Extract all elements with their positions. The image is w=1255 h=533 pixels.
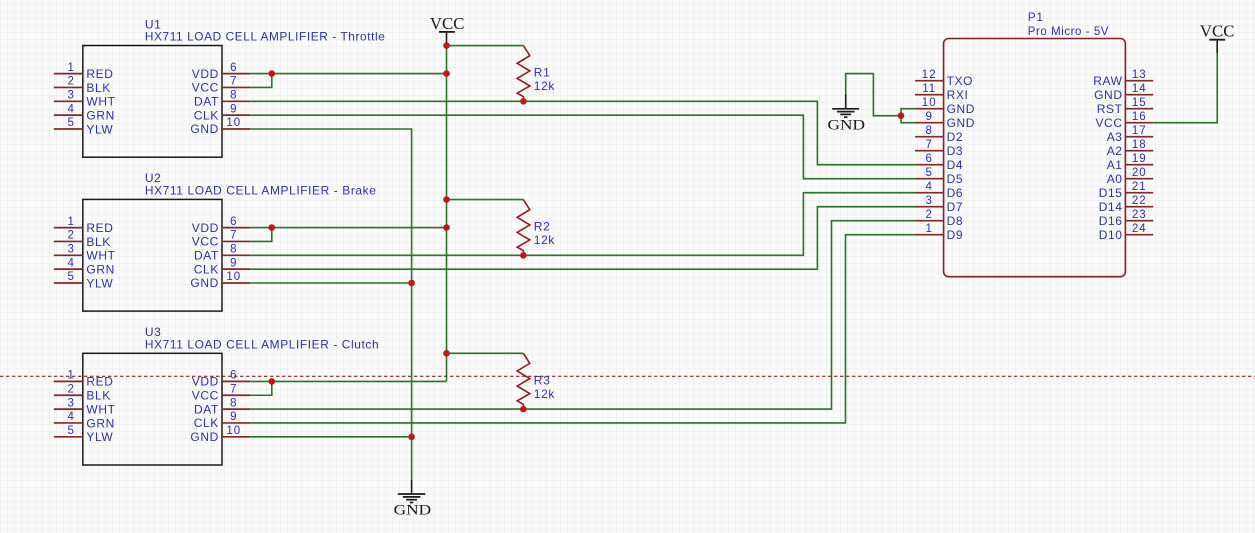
junction R2 bottom on U2 DAT <box>520 252 527 259</box>
svg-text:5: 5 <box>67 271 74 283</box>
junction VCC node <box>443 42 450 49</box>
svg-text:GND: GND <box>190 122 218 136</box>
wire U3 VDD to VCC rail <box>250 380 446 382</box>
U1 pin 2 BLK <box>54 76 111 95</box>
svg-text:VCC: VCC <box>192 81 219 95</box>
svg-text:GRN: GRN <box>86 108 114 122</box>
wire U3 DAT to P1 D8 <box>250 221 915 409</box>
junction P1 GND net <box>898 112 905 119</box>
U1 pin 8 DAT <box>194 90 250 109</box>
U3 pin 8 DAT <box>194 397 250 416</box>
wire U3 CLK to P1 D9 <box>250 235 915 423</box>
svg-text:D14: D14 <box>1099 200 1123 214</box>
wire U2 VCC jog to VDD <box>250 228 272 242</box>
wire VCC rail to R3 <box>447 352 524 354</box>
P1 pin 11 RXI <box>915 83 968 102</box>
svg-text:R2: R2 <box>534 220 551 234</box>
P1 pin 17 A3 <box>1107 125 1153 144</box>
svg-text:D4: D4 <box>947 158 964 172</box>
svg-text:VCC: VCC <box>1095 116 1122 130</box>
wire P1 GND net from ground symbol <box>846 74 901 116</box>
P1 pin 6 D4 <box>915 153 963 172</box>
junction VCC rail at R3 top <box>443 350 450 357</box>
svg-text:D5: D5 <box>947 172 964 186</box>
resistor R2 <box>517 200 530 256</box>
junction U1 VDD-VCC <box>269 70 276 77</box>
wire U2 GND to ground rail <box>250 282 411 284</box>
svg-text:CLK: CLK <box>194 108 219 122</box>
U2 pin 5 YLW <box>54 271 114 290</box>
junction R1 bottom on U1 DAT <box>520 98 527 105</box>
svg-text:2: 2 <box>925 209 932 221</box>
svg-text:RST: RST <box>1097 102 1123 116</box>
U3 pin 3 WHT <box>54 397 116 416</box>
svg-text:10: 10 <box>226 117 241 129</box>
svg-text:TXO: TXO <box>947 74 973 88</box>
svg-text:D10: D10 <box>1099 228 1123 242</box>
U1 pin 7 VCC <box>192 76 250 95</box>
P1 pin 1 D9 <box>915 223 963 242</box>
wire U1 GND to ground rail <box>250 129 411 480</box>
U3 pin 6 VDD <box>192 370 250 389</box>
U2 pin 3 WHT <box>54 244 116 263</box>
junction VCC rail at R2 top <box>443 196 450 203</box>
svg-text:13: 13 <box>1132 69 1147 81</box>
wire U2 VDD to VCC rail <box>250 227 446 229</box>
P1 pin 19 A1 <box>1107 153 1153 172</box>
U2 pin 7 VCC <box>192 230 250 249</box>
junction U2 VDD-VCC <box>269 224 276 231</box>
wire U1 VDD to VCC rail <box>250 73 446 75</box>
svg-text:5: 5 <box>67 425 74 437</box>
svg-text:GND: GND <box>1094 88 1122 102</box>
P1 pin 24 D10 <box>1099 223 1153 242</box>
svg-text:WHT: WHT <box>86 249 115 263</box>
U1 pin 4 GRN <box>54 103 115 122</box>
svg-text:18: 18 <box>1132 139 1147 151</box>
svg-text:6: 6 <box>230 216 237 228</box>
svg-text:VCC: VCC <box>430 14 465 33</box>
svg-text:19: 19 <box>1132 153 1147 165</box>
wire P1 pin 10 GND jog <box>901 109 915 116</box>
svg-text:12k: 12k <box>534 233 556 247</box>
svg-text:6: 6 <box>925 153 932 165</box>
U1 pin 5 YLW <box>54 117 114 136</box>
wire VCC rail to R1 <box>447 45 524 47</box>
svg-text:D9: D9 <box>947 228 964 242</box>
P1 pin 7 D3 <box>915 139 963 158</box>
svg-text:BLK: BLK <box>86 81 110 95</box>
svg-text:VDD: VDD <box>192 221 219 235</box>
svg-text:11: 11 <box>922 83 936 95</box>
svg-text:YLW: YLW <box>86 430 113 444</box>
svg-text:HX711 LOAD CELL AMPLIFIER - Th: HX711 LOAD CELL AMPLIFIER - Throttle <box>145 30 386 44</box>
svg-text:D6: D6 <box>947 186 964 200</box>
U2 pin 1 RED <box>54 216 114 235</box>
svg-text:2: 2 <box>67 383 74 395</box>
P1 pin 20 A0 <box>1107 167 1153 186</box>
IC U3 body <box>83 353 222 465</box>
svg-text:YLW: YLW <box>86 122 113 136</box>
svg-text:GND: GND <box>947 102 975 116</box>
svg-text:12: 12 <box>922 69 937 81</box>
wire P1 pin 9 GND jog <box>901 116 915 123</box>
junction ground rail at U2 GND <box>408 280 415 287</box>
P1 pin 15 RST <box>1097 97 1153 116</box>
wire U2 DAT to P1 D6 <box>250 193 915 256</box>
svg-text:RED: RED <box>86 67 113 81</box>
svg-text:A3: A3 <box>1107 130 1123 144</box>
wire U1 VCC jog to VDD <box>250 74 272 88</box>
P1 pin 4 D6 <box>915 181 963 200</box>
svg-text:8: 8 <box>925 125 932 137</box>
U3 pin 4 GRN <box>54 411 115 430</box>
U3 pin 5 YLW <box>54 425 114 444</box>
svg-text:A0: A0 <box>1107 172 1123 186</box>
svg-text:WHT: WHT <box>86 95 115 109</box>
junction VCC rail at U1 VDD <box>443 70 450 77</box>
svg-text:8: 8 <box>230 397 237 409</box>
svg-text:1: 1 <box>67 370 74 382</box>
svg-text:8: 8 <box>230 244 237 256</box>
P1 pin 16 VCC <box>1095 111 1153 130</box>
svg-text:21: 21 <box>1132 181 1147 193</box>
P1 pin 9 GND <box>915 111 975 130</box>
svg-text:6: 6 <box>230 370 237 382</box>
U3 pin 2 BLK <box>54 383 111 402</box>
svg-text:16: 16 <box>1132 111 1147 123</box>
svg-text:VCC: VCC <box>1200 22 1235 41</box>
svg-text:BLK: BLK <box>86 389 110 403</box>
P1 pin 21 D15 <box>1099 181 1153 200</box>
svg-text:VDD: VDD <box>192 375 219 389</box>
svg-text:GND: GND <box>190 276 218 290</box>
svg-text:RAW: RAW <box>1093 74 1122 88</box>
wire U3 VCC jog to VDD <box>250 381 272 395</box>
wire U2 CLK to P1 D7 <box>250 207 915 269</box>
wire U1 DAT to P1 D4 <box>250 101 915 164</box>
P1 pin 12 TXO <box>915 69 973 88</box>
U3 pin 7 VCC <box>192 383 250 402</box>
svg-text:24: 24 <box>1132 223 1147 235</box>
svg-text:5: 5 <box>925 167 932 179</box>
power symbol VCC left <box>430 14 465 46</box>
P1 pin 5 D5 <box>915 167 963 186</box>
wire VCC rail vertical <box>446 46 448 382</box>
svg-text:10: 10 <box>922 97 937 109</box>
P1 pin 8 D2 <box>915 125 963 144</box>
resistor R3 <box>517 353 530 409</box>
resistor R1 <box>517 46 530 102</box>
svg-text:1: 1 <box>925 223 932 235</box>
svg-text:15: 15 <box>1132 97 1147 109</box>
U3 pin 9 CLK <box>194 411 250 430</box>
svg-text:Pro Micro - 5V: Pro Micro - 5V <box>1028 24 1109 38</box>
svg-text:10: 10 <box>226 425 241 437</box>
U1 pin 10 GND <box>190 117 250 136</box>
svg-text:4: 4 <box>67 257 74 269</box>
junction ground rail at U3 GND <box>408 434 415 441</box>
U2 pin 8 DAT <box>194 244 250 263</box>
svg-text:DAT: DAT <box>194 249 219 263</box>
svg-text:9: 9 <box>230 411 237 423</box>
svg-text:1: 1 <box>67 216 74 228</box>
P1 pin 13 RAW <box>1093 69 1153 88</box>
svg-text:2: 2 <box>67 230 74 242</box>
svg-text:HX711 LOAD CELL AMPLIFIER - Br: HX711 LOAD CELL AMPLIFIER - Brake <box>145 184 377 198</box>
svg-text:1: 1 <box>67 62 74 74</box>
svg-text:HX711 LOAD CELL AMPLIFIER - Cl: HX711 LOAD CELL AMPLIFIER - Clutch <box>145 338 379 352</box>
wire U3 GND to ground rail <box>250 436 411 438</box>
svg-text:9: 9 <box>230 257 237 269</box>
P1 pin 14 GND <box>1094 83 1153 102</box>
ground symbol GND near P1 <box>828 94 866 134</box>
svg-text:6: 6 <box>230 62 237 74</box>
U3 pin 1 RED <box>54 370 114 389</box>
power symbol VCC right <box>1200 22 1235 53</box>
U2 pin 2 BLK <box>54 230 111 249</box>
U1 pin 6 VDD <box>192 62 250 81</box>
svg-text:12k: 12k <box>534 79 556 93</box>
svg-text:GND: GND <box>190 430 218 444</box>
wire U1 CLK to P1 D5 <box>250 115 915 179</box>
svg-text:7: 7 <box>230 76 237 88</box>
wire VCC right to P1 pin 16 <box>1153 53 1217 123</box>
svg-text:4: 4 <box>925 181 932 193</box>
ground symbol GND bottom <box>394 480 432 519</box>
U3 pin 10 GND <box>190 425 250 444</box>
svg-text:4: 4 <box>67 411 74 423</box>
svg-text:14: 14 <box>1132 83 1147 95</box>
svg-text:P1: P1 <box>1028 10 1044 24</box>
P1 pin 2 D8 <box>915 209 963 228</box>
svg-text:23: 23 <box>1132 209 1147 221</box>
svg-text:RED: RED <box>86 375 113 389</box>
svg-text:R1: R1 <box>534 66 551 80</box>
svg-text:D2: D2 <box>947 130 964 144</box>
P1 pin 3 D7 <box>915 195 963 214</box>
U2 pin 9 CLK <box>194 257 250 276</box>
P1 pin 10 GND <box>915 97 975 116</box>
svg-text:7: 7 <box>925 139 932 151</box>
svg-text:8: 8 <box>230 90 237 102</box>
svg-text:CLK: CLK <box>194 416 219 430</box>
svg-text:4: 4 <box>67 103 74 115</box>
connector P1 body <box>944 39 1126 277</box>
P1 pin 23 D16 <box>1099 209 1153 228</box>
svg-text:D3: D3 <box>947 144 964 158</box>
junction VCC rail at U2 VDD <box>443 224 450 231</box>
svg-text:A2: A2 <box>1107 144 1123 158</box>
svg-text:2: 2 <box>67 76 74 88</box>
svg-text:9: 9 <box>925 111 932 123</box>
svg-text:YLW: YLW <box>86 276 113 290</box>
svg-text:3: 3 <box>925 195 932 207</box>
svg-text:D7: D7 <box>947 200 964 214</box>
svg-text:12k: 12k <box>534 387 556 401</box>
svg-text:17: 17 <box>1132 125 1147 137</box>
U1 pin 9 CLK <box>194 103 250 122</box>
wire VCC rail to R2 <box>447 199 524 201</box>
svg-text:A1: A1 <box>1107 158 1123 172</box>
U1 pin 1 RED <box>54 62 114 81</box>
svg-text:GRN: GRN <box>86 416 114 430</box>
svg-text:7: 7 <box>230 230 237 242</box>
svg-text:DAT: DAT <box>194 95 219 109</box>
P1 pin 22 D14 <box>1099 195 1153 214</box>
svg-text:3: 3 <box>67 397 74 409</box>
svg-text:GND: GND <box>947 116 975 130</box>
svg-text:22: 22 <box>1132 195 1147 207</box>
svg-text:R3: R3 <box>534 373 551 387</box>
svg-text:GRN: GRN <box>86 262 114 276</box>
svg-text:D15: D15 <box>1099 186 1123 200</box>
svg-text:GND: GND <box>828 118 866 134</box>
U1 pin 3 WHT <box>54 90 116 109</box>
svg-text:7: 7 <box>230 383 237 395</box>
svg-text:GND: GND <box>394 502 432 518</box>
svg-text:CLK: CLK <box>194 262 219 276</box>
svg-text:D16: D16 <box>1099 214 1123 228</box>
svg-text:3: 3 <box>67 90 74 102</box>
dashed boundary line <box>0 375 1255 377</box>
svg-text:20: 20 <box>1132 167 1147 179</box>
svg-text:VCC: VCC <box>192 388 219 402</box>
IC U1 body <box>83 46 222 158</box>
svg-text:VCC: VCC <box>192 235 219 249</box>
svg-text:BLK: BLK <box>86 235 110 249</box>
P1 pin 18 A2 <box>1107 139 1153 158</box>
svg-text:RXI: RXI <box>947 88 969 102</box>
U2 pin 4 GRN <box>54 257 115 276</box>
U2 pin 6 VDD <box>192 216 250 235</box>
svg-text:10: 10 <box>226 271 241 283</box>
svg-text:5: 5 <box>67 117 74 129</box>
svg-text:VDD: VDD <box>192 67 219 81</box>
svg-text:RED: RED <box>86 221 113 235</box>
svg-text:3: 3 <box>67 244 74 256</box>
IC U2 body <box>83 199 222 311</box>
junction U3 VDD-VCC <box>269 378 276 385</box>
svg-text:WHT: WHT <box>86 402 115 416</box>
svg-text:DAT: DAT <box>194 402 219 416</box>
svg-text:9: 9 <box>230 103 237 115</box>
junction R3 bottom on U3 DAT <box>520 406 527 413</box>
U2 pin 10 GND <box>190 271 250 290</box>
svg-text:D8: D8 <box>947 214 964 228</box>
